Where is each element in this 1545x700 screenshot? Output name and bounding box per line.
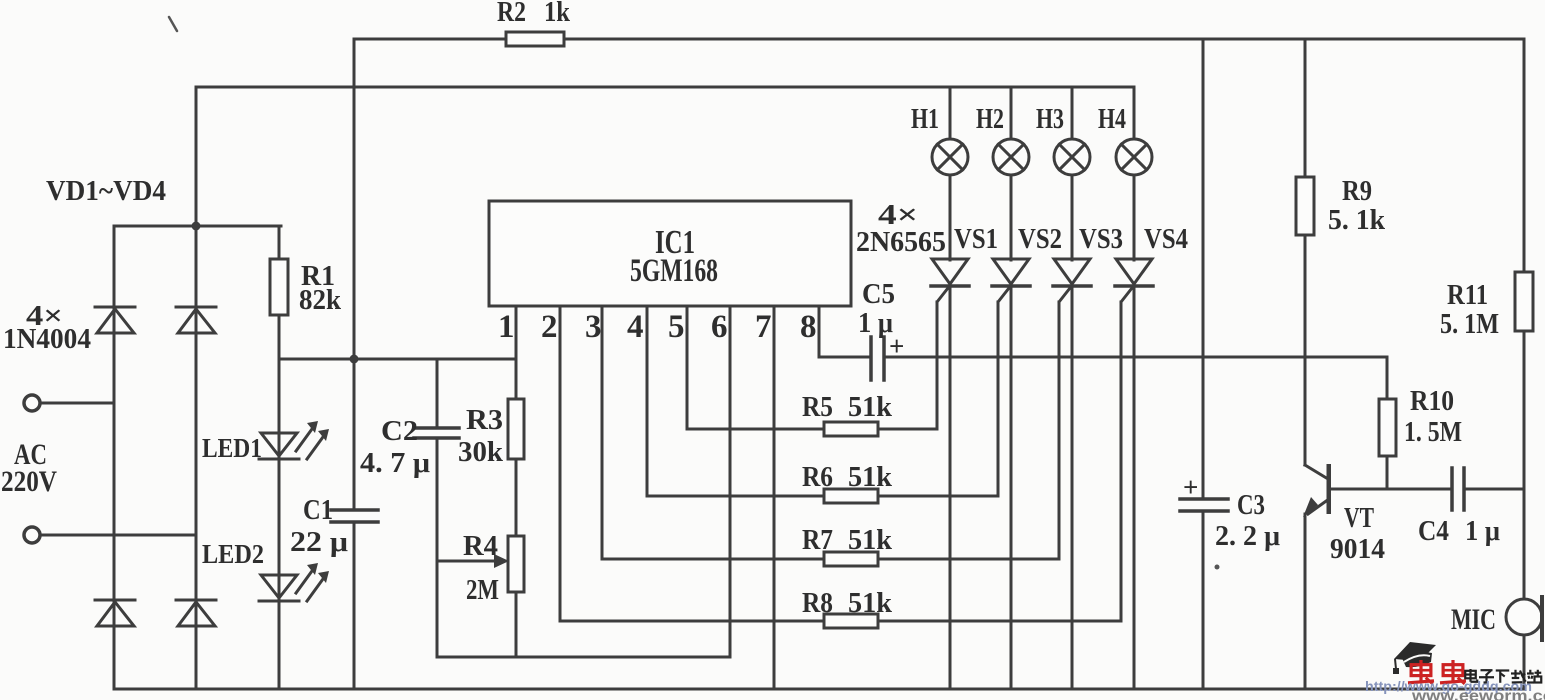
wire H3 column top <box>1071 87 1074 140</box>
lamp H4 <box>1116 139 1152 175</box>
watermark red character chong 1 <box>1408 660 1434 684</box>
watermark graduation cap icon <box>1393 642 1436 674</box>
wire C2 column lower <box>436 438 439 657</box>
svg-text:LED1: LED1 <box>202 433 262 463</box>
wire bridge top node horizontal <box>114 225 281 228</box>
svg-text:MIC: MIC <box>1451 603 1496 636</box>
wire VS3 cathode column <box>1071 286 1074 689</box>
wire VS4 cathode column <box>1133 286 1136 689</box>
svg-text:C4: C4 <box>1418 515 1449 547</box>
AC terminal 2 <box>24 527 40 543</box>
thyristor VS4 <box>1115 259 1153 286</box>
svg-text:5: 5 <box>668 309 685 345</box>
wire VS2 gate line <box>997 302 1000 496</box>
svg-text:R3: R3 <box>466 404 503 436</box>
wire top-right corner down to R11 <box>1523 39 1526 272</box>
svg-text:8: 8 <box>800 309 817 345</box>
svg-text:22 μ: 22 μ <box>290 526 349 558</box>
wire H2 to VS2 <box>1010 175 1013 260</box>
svg-text:4. 7 μ: 4. 7 μ <box>360 447 431 479</box>
wire C5 to R10 <box>884 356 1387 359</box>
svg-text:1N4004: 1N4004 <box>3 323 91 355</box>
wire R8 row <box>560 620 824 623</box>
wire H3 to VS3 <box>1071 175 1074 260</box>
wire C3 column upper <box>1202 39 1205 499</box>
svg-text:5. 1k: 5. 1k <box>1328 204 1386 236</box>
wire H4 column top <box>1133 87 1136 140</box>
wire mid horizontal <box>279 358 516 361</box>
capacitor C1 <box>331 510 378 522</box>
resistor R8 <box>824 614 878 628</box>
svg-text:VS1: VS1 <box>954 223 998 255</box>
resistor R11 <box>1515 272 1533 331</box>
svg-text:51k: 51k <box>848 587 893 619</box>
wire MIC to bottom rail <box>1523 635 1526 689</box>
thyristor VS3 <box>1053 259 1091 286</box>
capacitor C5 <box>871 337 884 380</box>
svg-text:R7: R7 <box>802 524 833 556</box>
svg-text:2. 2 μ: 2. 2 μ <box>1215 520 1281 552</box>
svg-text:C2: C2 <box>381 415 418 447</box>
resistor R1 <box>270 259 288 315</box>
LED LED1 <box>259 421 329 459</box>
capacitor C2 <box>414 428 459 438</box>
svg-text:VS2: VS2 <box>1018 223 1062 255</box>
lamp H3 <box>1054 139 1090 175</box>
svg-text:VT: VT <box>1344 502 1374 534</box>
diode VD3 <box>95 600 135 626</box>
wire pin 7 column <box>773 306 776 689</box>
svg-text:1. 5M: 1. 5M <box>1404 416 1462 448</box>
svg-text:R10: R10 <box>1410 385 1454 417</box>
transistor VT 9014 <box>1303 464 1331 517</box>
wire pin1 R3 R4 column <box>515 306 518 657</box>
svg-text:1k: 1k <box>544 0 571 28</box>
wire bottom rail <box>114 688 1524 691</box>
svg-text:2: 2 <box>541 309 558 345</box>
resistor R6 <box>824 489 878 503</box>
lamp H1 <box>932 139 968 175</box>
resistor R5 <box>824 422 878 436</box>
wire C2 column upper <box>436 359 439 428</box>
resistor R2 <box>506 32 564 46</box>
svg-text:H4: H4 <box>1098 103 1126 135</box>
resistor R10 <box>1379 399 1396 456</box>
capacitor C4 <box>1452 468 1464 510</box>
wire top supply rail <box>354 38 1524 41</box>
svg-text:6: 6 <box>711 309 728 345</box>
svg-text:www.eeworm.com: www.eeworm.com <box>1411 688 1545 700</box>
svg-text:82k: 82k <box>299 284 342 316</box>
resistor R7 <box>824 552 878 566</box>
wire main column x354 lower <box>353 522 356 689</box>
thyristor VS2 <box>992 259 1030 286</box>
stray mark top left <box>169 17 177 31</box>
wire C3 column lower <box>1202 511 1205 689</box>
svg-text:1: 1 <box>498 309 515 345</box>
wire VS2 cathode column <box>1010 286 1013 689</box>
node bridge top junction dot <box>192 222 201 231</box>
wire bridge column 2 <box>195 87 198 689</box>
diode VD4 <box>176 600 216 626</box>
wire VS1 cathode column <box>949 286 952 689</box>
svg-text:51k: 51k <box>848 461 893 493</box>
svg-text:R2: R2 <box>497 0 526 28</box>
wire H2 column top <box>1010 87 1013 140</box>
wire R9 column <box>1304 39 1307 465</box>
svg-text:H3: H3 <box>1036 103 1064 135</box>
resistor R9 <box>1296 177 1314 235</box>
potentiometer R4 <box>508 536 524 592</box>
wire R5 row <box>687 428 824 431</box>
wire C4 to mic column <box>1464 488 1524 491</box>
svg-text:4: 4 <box>627 309 644 345</box>
wire R6 row <box>647 495 824 498</box>
svg-text:3: 3 <box>585 309 602 345</box>
wire R7 row <box>602 558 824 561</box>
wire H1 to VS1 <box>949 175 952 260</box>
node junction dot mid wire <box>350 355 359 364</box>
capacitor C3 <box>1180 499 1228 511</box>
lamp H2 <box>993 139 1029 175</box>
svg-text:C1: C1 <box>303 494 333 526</box>
svg-text:7: 7 <box>755 309 772 345</box>
wire H1 column top <box>949 87 952 140</box>
wire base horizontal <box>1331 488 1452 491</box>
wire R4 wiper arrow <box>437 554 509 568</box>
wire pin 3 column <box>601 306 604 559</box>
svg-text:30k: 30k <box>458 436 504 468</box>
svg-text:R4: R4 <box>463 530 498 562</box>
svg-text:VS4: VS4 <box>1144 223 1188 255</box>
svg-text:C5: C5 <box>862 278 895 310</box>
wire VS1 gate line <box>936 302 939 429</box>
diode VD2 <box>176 307 216 333</box>
watermark red character chong 2 <box>1440 660 1466 684</box>
IC1 5GM168 box <box>489 201 851 306</box>
svg-text:R8: R8 <box>802 587 833 619</box>
wire pin 8 stub <box>818 306 821 357</box>
svg-text:51k: 51k <box>848 391 893 423</box>
wire VS3 gate line <box>1058 302 1061 559</box>
svg-text:220V: 220V <box>1 465 57 498</box>
svg-text:51k: 51k <box>848 524 893 556</box>
wire R11 to MIC <box>1523 331 1526 600</box>
svg-text:H2: H2 <box>976 103 1004 135</box>
wire pin 4 column <box>646 306 649 496</box>
svg-text:R6: R6 <box>802 461 833 493</box>
svg-text:C3: C3 <box>1237 489 1265 521</box>
svg-text:1 μ: 1 μ <box>1465 515 1501 547</box>
svg-text:+: + <box>1183 472 1198 502</box>
wire pin 5 column <box>686 306 689 429</box>
resistor R3 <box>508 399 524 459</box>
svg-text:LED2: LED2 <box>202 539 264 569</box>
svg-text:H1: H1 <box>911 103 939 135</box>
wire VS4 gate line <box>1120 302 1123 621</box>
wire pin 6 column <box>729 306 732 657</box>
wire second rail lamp supply <box>196 86 1134 89</box>
wire AC terminal 2 to bridge <box>41 534 196 537</box>
wire R1-LED column <box>278 226 281 689</box>
svg-text:VD1~VD4: VD1~VD4 <box>46 175 166 207</box>
wire AC terminal 1 to bridge <box>41 402 114 405</box>
thyristor VS1 <box>931 259 969 286</box>
microphone MIC <box>1506 597 1542 640</box>
wire emitter to bottom rail <box>1304 514 1307 689</box>
wire bridge column 1 <box>113 226 116 689</box>
svg-text:R5: R5 <box>802 391 833 423</box>
svg-text:5. 1M: 5. 1M <box>1440 308 1499 340</box>
wire H4 to VS4 <box>1133 175 1136 260</box>
svg-text:VS3: VS3 <box>1079 223 1123 255</box>
watermark black site name characters <box>1465 669 1541 683</box>
svg-text:9014: 9014 <box>1330 533 1385 565</box>
svg-text:R11: R11 <box>1447 279 1488 311</box>
wire main column x354 upper <box>353 39 356 510</box>
svg-text:2N6565: 2N6565 <box>856 226 946 258</box>
LED LED2 <box>259 563 329 601</box>
wire drop to R10 <box>1386 357 1389 489</box>
svg-text:5GM168: 5GM168 <box>630 253 718 289</box>
AC terminal 1 <box>24 395 40 411</box>
stray dot <box>1215 565 1220 570</box>
wire pin 2 column <box>559 306 562 621</box>
wire bottom mid horizontal <box>437 656 730 659</box>
svg-text:R9: R9 <box>1342 175 1372 207</box>
svg-text:2M: 2M <box>466 574 499 606</box>
diode VD1 <box>95 307 135 333</box>
